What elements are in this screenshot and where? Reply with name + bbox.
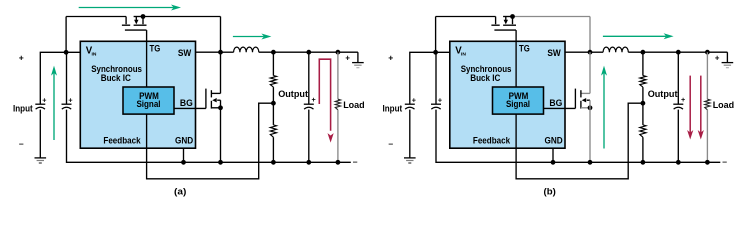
high-side MOSFET Q1 drain contact bar	[491, 24, 499, 26]
output capacitor C_OUT plates	[673, 104, 683, 109]
svg-text:+: +	[388, 52, 393, 62]
wire: switch node to inductor	[221, 51, 234, 53]
ground (output)	[352, 63, 364, 68]
node: Vin junction dot	[64, 50, 69, 55]
pin label TG	[150, 43, 161, 54]
wire: top rail from Q1 source to switch-node riser	[134, 16, 221, 18]
input capacitor bottom lead to ground rail	[436, 110, 720, 163]
green buck-loop current arrow (up)	[601, 66, 607, 149]
PWM Signal block	[493, 87, 544, 114]
inductor L1	[234, 47, 259, 52]
svg-text:IN: IN	[92, 52, 97, 58]
high-side MOSFET Q1 drain stub	[125, 17, 127, 25]
input capacitor plus label	[68, 96, 72, 105]
wire: output rail	[628, 51, 727, 53]
low-side MOSFET Q2 bottom contact bar	[580, 101, 582, 109]
PWM Signal block	[123, 87, 174, 114]
node: output cap bottom junction dot	[676, 160, 681, 165]
wire: GND pin to ground rail	[183, 148, 185, 162]
resistor: Load	[705, 99, 710, 110]
ground (input)	[35, 158, 47, 163]
figure (a)	[13, 5, 365, 198]
wire: divider middle	[272, 87, 274, 125]
svg-text:SW: SW	[547, 48, 560, 59]
input source plus label	[412, 96, 416, 105]
wire: output rail to output ground	[357, 52, 359, 62]
input capacitor C_IN top lead	[66, 52, 68, 104]
wire: feedback trace	[147, 103, 274, 179]
high-side MOSFET Q1 source contact bar	[134, 24, 147, 26]
input source V+ wire	[40, 52, 80, 104]
node: Vin junction dot	[433, 50, 438, 55]
pin label GND	[545, 135, 563, 146]
svg-text:Load: Load	[713, 100, 735, 111]
wire: switch node down to Q2 drain	[589, 52, 591, 93]
green top-loop current arrow (right)	[79, 5, 181, 11]
output capacitor bottom lead	[677, 110, 679, 163]
resistor R2 (divider bottom)	[640, 125, 646, 137]
figure caption	[544, 187, 556, 198]
pin label SW	[178, 48, 191, 59]
wire: load top lead (gray)	[337, 52, 339, 99]
plus terminal label	[388, 52, 393, 62]
output capacitor plus label	[681, 95, 685, 104]
wire: TG gate drive from Q1 gate to PWM block	[146, 30, 148, 87]
svg-text:+: +	[312, 95, 316, 104]
high-side MOSFET Q1 source stub	[142, 17, 144, 25]
low-side MOSFET Q2 channel arrow (left)	[212, 98, 220, 102]
svg-text:(a): (a)	[174, 187, 186, 198]
wire: feedback trace	[516, 103, 643, 179]
output capacitor C_OUT plates	[304, 104, 314, 109]
svg-text:+: +	[68, 96, 72, 105]
IC name line 2	[470, 73, 500, 84]
svg-text:+: +	[345, 54, 350, 63]
svg-text:Feedback: Feedback	[103, 135, 141, 146]
ground (input)	[404, 158, 416, 163]
svg-text:TG: TG	[150, 43, 161, 54]
node: feedback divider tap dot	[271, 101, 276, 106]
wire: Vin node riser to top rail	[65, 17, 67, 53]
PWM label line 2	[136, 99, 160, 110]
node: output cap top junction dot	[676, 50, 681, 55]
plus terminal label	[19, 52, 24, 62]
low-side MOSFET Q2 drain tap	[211, 92, 220, 94]
high-side MOSFET Q1 channel arrow (down)	[504, 17, 508, 24]
wire: SW pin to switch node	[196, 51, 221, 53]
wire: load bottom lead (gray)	[337, 110, 339, 163]
high-side MOSFET Q1 drain stub	[495, 17, 497, 25]
output capacitor C_OUT top lead	[308, 52, 310, 104]
wire: switch node to inductor	[590, 51, 603, 53]
pin label TG	[519, 43, 530, 54]
svg-text:–: –	[19, 139, 24, 149]
svg-text:Load: Load	[343, 100, 365, 111]
pin label Feedback	[473, 135, 511, 146]
wire: switch-node riser down to SW	[589, 17, 591, 53]
wire: divider bottom lead	[642, 137, 644, 162]
svg-text:+: +	[681, 95, 685, 104]
svg-text:SW: SW	[178, 48, 191, 59]
svg-text:IN: IN	[461, 52, 466, 58]
svg-text:Buck IC: Buck IC	[470, 73, 500, 84]
node: Q2 ground rail junction dot	[588, 160, 593, 165]
svg-text:BG: BG	[549, 98, 562, 109]
input source negative lead	[39, 110, 41, 158]
wire: Q2 source to ground rail	[589, 100, 591, 162]
svg-text:+: +	[19, 52, 24, 62]
wire: output rail to output ground	[726, 52, 728, 62]
wire: divider middle	[642, 87, 644, 125]
output capacitor bottom lead	[308, 110, 310, 163]
wire: top rail to high-side FET drain	[66, 16, 126, 18]
pin label VIN	[455, 45, 466, 57]
green inductor current arrow (right)	[603, 33, 674, 39]
PWM label line 1	[509, 91, 529, 102]
high-side MOSFET Q1 drain contact bar	[122, 24, 130, 26]
node: output cap top junction dot	[306, 50, 311, 55]
pin label Feedback	[103, 135, 141, 146]
svg-text:–: –	[722, 156, 727, 166]
wire: Q2 source to ground rail	[220, 100, 222, 162]
IC name line 2	[101, 73, 131, 84]
resistor R1 (divider top)	[640, 76, 646, 88]
high-side MOSFET Q1 source contact bar	[503, 24, 516, 26]
wire: load top lead (gray)	[706, 52, 708, 99]
output minus label	[353, 156, 358, 166]
green inductor current arrow (right)	[233, 34, 272, 40]
node: Q1 source junction dot	[141, 14, 146, 19]
node: load top junction dot	[336, 50, 341, 55]
input capacitor C_IN plates	[62, 104, 72, 109]
node: load top junction dot	[705, 50, 710, 55]
input capacitor plus label	[438, 96, 442, 105]
Load label	[343, 100, 365, 111]
low-side MOSFET Q2 source tap	[581, 107, 590, 109]
svg-text:TG: TG	[519, 43, 530, 54]
input capacitor C_IN plates	[431, 104, 441, 109]
svg-text:Output: Output	[648, 89, 679, 100]
node: load bottom junction dot	[705, 160, 710, 165]
node: divider bottom junction dot	[641, 160, 646, 165]
figure (b)	[383, 14, 735, 198]
wire: output rail	[259, 51, 358, 53]
maroon load current arrow 2 (down)	[698, 76, 704, 140]
wire: load bottom lead (gray)	[706, 110, 708, 163]
node: switch node junction dot	[588, 50, 593, 55]
node: load bottom junction dot	[336, 160, 341, 165]
wire: switch-node riser down to SW	[220, 17, 222, 53]
Load label	[713, 100, 735, 111]
output plus label	[715, 54, 720, 63]
low-side MOSFET Q2 source tap	[211, 107, 220, 109]
node: switch node junction dot	[218, 50, 223, 55]
wire: BG pin to Q2 gate	[174, 107, 206, 109]
minus terminal label	[388, 139, 393, 149]
svg-text:+: +	[412, 96, 416, 105]
high-side MOSFET Q1 gate bar	[494, 29, 516, 31]
green input current arrow (up)	[51, 66, 57, 140]
Output label	[278, 89, 309, 100]
svg-text:Buck IC: Buck IC	[101, 73, 131, 84]
node: GND rail junction dot	[181, 160, 186, 165]
pin label BG	[549, 98, 562, 109]
resistor R1 (divider top)	[270, 76, 276, 88]
low-side MOSFET Q2 drain tap	[581, 92, 590, 94]
input source capacitor (battery) plates	[405, 104, 415, 109]
low-side MOSFET Q2 gate bar	[574, 89, 576, 109]
input capacitor C_IN top lead	[435, 52, 437, 104]
node: GND rail junction dot	[551, 160, 556, 165]
IC name line 1	[91, 64, 142, 75]
pin label VIN	[86, 45, 97, 57]
input source negative lead	[409, 110, 411, 158]
input source plus label	[42, 96, 46, 105]
low-side MOSFET Q2 gate bar	[205, 89, 207, 109]
output plus label	[345, 54, 350, 63]
svg-text:+: +	[438, 96, 442, 105]
svg-text:Output: Output	[278, 89, 309, 100]
wire: SW pin to switch node	[565, 51, 590, 53]
wire: divider top lead	[272, 52, 274, 75]
svg-text:GND: GND	[545, 135, 563, 146]
node: Q2 source junction dot	[588, 105, 593, 110]
svg-text:–: –	[388, 139, 393, 149]
svg-text:Feedback: Feedback	[473, 135, 511, 146]
output minus label	[722, 156, 727, 166]
svg-text:Signal: Signal	[506, 99, 530, 110]
PWM label line 2	[506, 99, 530, 110]
Output label	[648, 89, 679, 100]
wire: Vin node riser to top rail	[435, 17, 437, 53]
wire: switch node down to Q2 drain	[220, 52, 222, 93]
low-side MOSFET Q2 channel arrow (left)	[582, 98, 590, 102]
minus terminal label	[19, 139, 24, 149]
high-side MOSFET Q1 gate bar	[125, 29, 147, 31]
PWM label line 1	[139, 91, 159, 102]
maroon load loop arrow	[319, 59, 333, 142]
pin label GND	[175, 135, 193, 146]
wire: BG pin to Q2 gate	[544, 107, 576, 109]
svg-text:–: –	[353, 156, 358, 166]
ground (output)	[722, 63, 734, 68]
maroon load current arrow 1 (down)	[687, 76, 693, 140]
svg-text:Signal: Signal	[136, 99, 160, 110]
node: feedback divider tap dot	[641, 101, 646, 106]
op IC body: Synchronous Buck IC box	[80, 41, 195, 148]
svg-text:Input: Input	[13, 103, 33, 114]
node: Q2 source junction dot	[218, 105, 223, 110]
high-side MOSFET Q1 source stub	[512, 17, 514, 25]
svg-text:+: +	[715, 54, 720, 63]
resistor: Load	[335, 99, 340, 110]
wire: divider top lead	[642, 52, 644, 75]
inductor L1	[603, 47, 628, 52]
IC name line 1	[461, 64, 512, 75]
output capacitor plus label	[312, 95, 316, 104]
node: output cap bottom junction dot	[306, 160, 311, 165]
wire: TG gate drive from Q1 gate to PWM block	[515, 30, 517, 87]
node: divider bottom junction dot	[271, 160, 276, 165]
input source V+ wire	[410, 52, 450, 104]
wire: top rail from Q1 source to switch-node riser	[503, 16, 590, 18]
wire: GND pin to ground rail	[552, 148, 554, 162]
node: Q2 ground rail junction dot	[218, 160, 223, 165]
input capacitor bottom lead to ground rail	[67, 110, 351, 163]
node: divider top junction dot	[271, 50, 276, 55]
svg-text:Input: Input	[383, 103, 403, 114]
wire: top rail to high-side FET drain	[436, 16, 496, 18]
resistor R2 (divider bottom)	[270, 125, 276, 137]
low-side MOSFET Q2 top contact bar	[210, 90, 212, 97]
output capacitor C_OUT top lead	[677, 52, 679, 104]
wire: divider bottom lead	[272, 137, 274, 162]
low-side MOSFET Q2 top contact bar	[580, 90, 582, 97]
node: divider top junction dot	[641, 50, 646, 55]
svg-text:(b): (b)	[544, 187, 556, 198]
high-side MOSFET Q1 channel arrow (down)	[134, 17, 138, 24]
svg-text:BG: BG	[180, 98, 193, 109]
svg-text:+: +	[42, 96, 46, 105]
Input label	[383, 103, 403, 114]
input source capacitor (battery) plates	[35, 104, 45, 109]
svg-text:GND: GND	[175, 135, 193, 146]
pin label BG	[180, 98, 193, 109]
pin label SW	[547, 48, 560, 59]
Input label	[13, 103, 33, 114]
op IC body: Synchronous Buck IC box	[450, 41, 565, 148]
node: Q1 source junction dot	[510, 14, 515, 19]
figure caption	[174, 187, 186, 198]
low-side MOSFET Q2 bottom contact bar	[210, 101, 212, 109]
